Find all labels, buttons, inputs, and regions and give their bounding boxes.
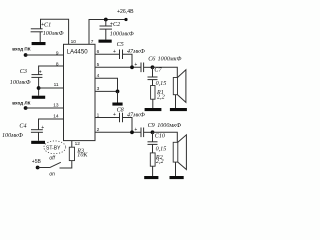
wire pin10 net from C1 top to pin 10: [41, 19, 69, 44]
wire pin 5: [95, 66, 141, 68]
switch SA off/on: [38, 156, 61, 178]
wire pin 8 to C3: [39, 66, 64, 75]
node pin2/C8 junction: [130, 130, 134, 134]
svg-text:+: +: [41, 125, 44, 131]
wire C6 to output node: [144, 66, 153, 68]
capacitor C4 label: [19, 124, 44, 131]
ground C1: [32, 42, 46, 45]
capacitor C5 label: [113, 42, 124, 55]
capacitor C1 label: [41, 22, 51, 28]
svg-text:1000мкФ: 1000мкФ: [157, 123, 181, 129]
svg-text:7: 7: [91, 39, 94, 45]
svg-text:C4: C4: [19, 124, 26, 130]
svg-text:10К: 10К: [77, 153, 88, 159]
node pin5/C5 junction: [130, 65, 134, 69]
node C3/pin11 junction: [37, 86, 41, 90]
resistor R3: [69, 141, 74, 161]
capacitor C4 plates: [31, 130, 43, 141]
svg-text:0,15: 0,15: [156, 147, 167, 153]
svg-text:вход ЛК: вход ЛК: [12, 100, 30, 105]
ground C3: [32, 96, 45, 99]
svg-text:C3: C3: [20, 69, 27, 75]
svg-text:13: 13: [53, 103, 59, 109]
node +5V terminal: [36, 166, 40, 170]
svg-text:+: +: [134, 127, 137, 133]
svg-text:off: off: [49, 156, 55, 162]
ground R2: [144, 176, 158, 179]
wire output to speaker 1: [153, 67, 178, 77]
svg-text:2: 2: [97, 127, 100, 133]
capacitor C1 plates: [31, 29, 43, 42]
capacitor C10: [148, 132, 158, 153]
svg-text:14: 14: [53, 114, 59, 120]
svg-text:1000мкФ: 1000мкФ: [158, 57, 182, 63]
R1 labels: [156, 90, 165, 101]
capacitor C3 plates: [31, 75, 42, 96]
capacitor C2: [100, 20, 113, 40]
node rail/C2 junction: [104, 18, 108, 22]
svg-text:вход ПК: вход ПК: [12, 47, 31, 52]
svg-text:9: 9: [56, 50, 59, 56]
svg-text:C9: C9: [148, 123, 155, 129]
wire C8 to pin2 node: [123, 118, 133, 133]
svg-text:C5: C5: [117, 42, 124, 48]
wire pin 6: [95, 53, 120, 55]
svg-text:0,15: 0,15: [156, 81, 167, 87]
wire C9 to output node: [144, 131, 153, 133]
svg-text:+26,4В: +26,4В: [117, 9, 134, 15]
node output 2 junction: [151, 130, 155, 134]
svg-text:12: 12: [75, 141, 81, 147]
svg-text:C1: C1: [44, 23, 51, 29]
ground C4: [31, 141, 45, 144]
ground R1: [145, 108, 162, 111]
svg-text:+5В: +5В: [32, 159, 42, 165]
svg-text:ST-BY: ST-BY: [46, 145, 61, 151]
wire pin 11: [39, 87, 64, 89]
node pin3/4 junction: [116, 90, 120, 94]
capacitor C3 label: [20, 69, 42, 76]
R3 labels: [76, 149, 88, 159]
svg-text:8: 8: [56, 61, 59, 67]
svg-text:11: 11: [54, 82, 59, 88]
capacitor C8 plates: [120, 113, 123, 123]
svg-text:100мкФ: 100мкФ: [43, 31, 64, 37]
resistor R1: [151, 86, 155, 109]
svg-text:C10: C10: [155, 134, 165, 140]
node +26V terminal: [124, 18, 127, 21]
svg-text:1000мкФ: 1000мкФ: [110, 31, 134, 37]
ground pins 3,4: [112, 103, 122, 106]
svg-text:1: 1: [97, 112, 100, 118]
wire switch contact to R3 bottom: [60, 161, 72, 168]
ground speaker 2: [170, 176, 184, 179]
svg-text:5: 5: [97, 62, 100, 68]
wire pin 2: [95, 131, 141, 133]
svg-text:6: 6: [97, 49, 100, 55]
speaker 2: [173, 135, 186, 176]
wire +26V rail and pin 7 riser: [89, 20, 126, 45]
resistor R2: [150, 153, 155, 176]
svg-text:C8: C8: [117, 108, 124, 114]
node input PK terminal: [24, 53, 28, 57]
speaker 1: [173, 70, 186, 108]
capacitor C6 plates: [134, 62, 143, 72]
node input LK terminal: [24, 106, 28, 110]
svg-text:C7: C7: [154, 68, 162, 74]
capacitor C5 plates: [120, 50, 123, 60]
svg-text:2,2: 2,2: [157, 95, 165, 101]
node output 1 junction: [151, 65, 155, 69]
svg-text:on: on: [49, 172, 55, 178]
svg-text:+: +: [113, 112, 116, 118]
wire output to speaker 2: [153, 132, 178, 142]
capacitor C8 label: [113, 108, 124, 118]
ST-BY dashed ellipse: [44, 141, 66, 154]
svg-text:3: 3: [97, 86, 100, 92]
op-amp IC U1 LA4450 body: [64, 44, 96, 140]
svg-text:C6: C6: [148, 57, 156, 63]
svg-text:C2: C2: [113, 22, 120, 28]
svg-text:+: +: [134, 62, 137, 68]
wire C5 to pin5 node: [123, 54, 133, 67]
wire pin 3: [95, 90, 118, 92]
R2 labels: [155, 155, 164, 165]
ground C2: [99, 40, 112, 43]
wire pin 9: [26, 54, 64, 56]
wire pin 13: [26, 107, 64, 109]
svg-text:4: 4: [97, 73, 100, 79]
svg-text:100мкФ: 100мкФ: [2, 133, 23, 139]
capacitor C2 label: [110, 21, 120, 28]
svg-text:2,2: 2,2: [156, 159, 164, 165]
svg-text:10: 10: [71, 39, 77, 45]
capacitor C9 plates: [134, 127, 143, 137]
svg-text:+: +: [39, 69, 42, 75]
wire junction to ground: [117, 91, 119, 102]
svg-text:+: +: [113, 49, 116, 55]
capacitor C7: [148, 67, 158, 85]
svg-text:100мкФ: 100мкФ: [10, 80, 31, 86]
svg-text:LA4450: LA4450: [67, 49, 89, 56]
ground speaker 1: [170, 108, 187, 111]
wire pin 1: [95, 117, 120, 119]
wire pin 4: [95, 78, 118, 91]
wire pin 14 to C4: [39, 119, 64, 130]
